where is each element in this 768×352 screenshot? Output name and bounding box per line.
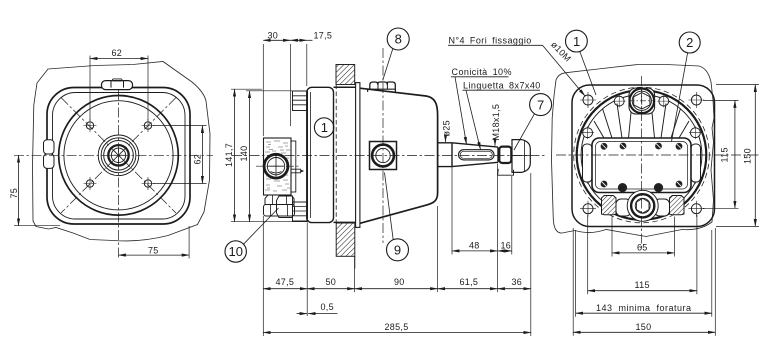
dim 16 bbox=[498, 250, 512, 252]
svg-text:8: 8 bbox=[395, 32, 402, 47]
block screw TL bbox=[601, 143, 608, 150]
fitting hex facets bbox=[273, 195, 287, 204]
flange face inner line bbox=[310, 92, 312, 218]
threaded end M18 bbox=[499, 147, 511, 163]
bulkhead panel bottom section (hatched) bbox=[336, 223, 355, 256]
dim 140 dimension line bbox=[249, 91, 251, 222]
dim 90 bbox=[355, 288, 438, 290]
dim 75 left: bottom extension bbox=[14, 225, 60, 227]
svg-text:62: 62 bbox=[193, 154, 203, 165]
bottom drain boss outer circle bbox=[627, 190, 658, 221]
callout 7 leader bbox=[514, 114, 535, 150]
svg-text:ø10M: ø10M bbox=[549, 39, 573, 63]
block inner edge bbox=[596, 142, 688, 190]
svg-text:30: 30 bbox=[268, 30, 279, 40]
dim 47.5 bbox=[263, 288, 307, 290]
right outlet fitting hatched bbox=[670, 196, 685, 215]
Conicita leader bbox=[455, 77, 467, 145]
washer tab below bbox=[498, 169, 514, 175]
bypass valve block body bbox=[264, 138, 292, 195]
key slot inner bbox=[460, 151, 492, 158]
left outlet fitting hatched bbox=[602, 196, 617, 215]
svg-text:115: 115 bbox=[720, 147, 730, 162]
shaft bore bold ring bbox=[108, 145, 128, 165]
panel hidden edge (dashed) bbox=[335, 85, 337, 224]
svg-text:75: 75 bbox=[148, 246, 159, 256]
boss centerline cross bbox=[629, 88, 656, 115]
lower nut facets bbox=[271, 205, 288, 216]
pump neck top edge bbox=[334, 86, 356, 88]
cover bolt hole 202.5deg bbox=[581, 171, 594, 184]
N4 fori underline bbox=[448, 44, 543, 46]
casting web rib lines bbox=[594, 104, 689, 139]
callout 9 circle bbox=[387, 239, 409, 261]
hub circle 2 bbox=[101, 138, 136, 173]
filler plug hex lobes bbox=[370, 82, 396, 89]
dim 30/17.5 extension line b bbox=[290, 44, 292, 126]
callout 9 leader bbox=[385, 173, 394, 240]
clamp bracket at flange top-left bbox=[293, 91, 307, 111]
callout 1 rear circle bbox=[566, 30, 588, 52]
plate corner hole BL bbox=[580, 201, 596, 217]
dim 143 bbox=[576, 312, 712, 314]
bleed nipple toward flange bbox=[292, 169, 301, 173]
cover bolt hole 157.5deg bbox=[581, 126, 594, 139]
svg-text:50: 50 bbox=[326, 277, 337, 287]
knob slot detail bbox=[268, 156, 284, 177]
svg-text:75: 75 bbox=[9, 188, 19, 199]
svg-text:150: 150 bbox=[636, 322, 652, 332]
callout 10 circle bbox=[225, 241, 246, 262]
dim 62 top: extension lines bbox=[90, 56, 148, 121]
N4 fori leader bbox=[543, 45, 586, 96]
svg-text:Linguetta 8x7x40: Linguetta 8x7x40 bbox=[463, 80, 541, 90]
key slot outer bbox=[459, 150, 495, 160]
filler plug facet verticals bbox=[378, 83, 387, 89]
bottom dims: extension verticals bbox=[263, 164, 531, 337]
svg-text:10: 10 bbox=[229, 244, 243, 259]
top boss inner circle bbox=[632, 91, 651, 110]
dim 115 bottom extensions bbox=[588, 215, 697, 294]
horizontal centerline left view bbox=[14, 154, 213, 156]
pump neck bottom edge bbox=[334, 221, 356, 223]
hex fitting at flange bottom-left (item 10 target) bbox=[277, 196, 293, 218]
dim 48 bbox=[452, 250, 498, 252]
dim 150 right bbox=[754, 85, 756, 227]
main horizontal centerline bbox=[232, 155, 545, 157]
cover bolt hole 337.5deg bbox=[689, 171, 702, 184]
hub circle 1 bbox=[98, 135, 139, 176]
shaft nut (item 7) bbox=[512, 140, 530, 173]
left side clip lower bbox=[44, 154, 55, 168]
plate corner hole BR bbox=[688, 201, 704, 217]
dim 141.7 top extension bbox=[231, 88, 262, 90]
dim 150 bottom bbox=[573, 331, 715, 333]
svg-text:141,7: 141,7 bbox=[224, 143, 234, 167]
dim 30 dimension line bbox=[263, 39, 290, 41]
flange front face bold line bbox=[306, 91, 308, 219]
svg-text:48: 48 bbox=[469, 240, 480, 250]
dim 285.5 bbox=[263, 332, 531, 334]
dim 115 right bbox=[734, 100, 736, 208]
bolt hole bottom-left bbox=[84, 177, 97, 190]
dim 17.5 line tail bbox=[307, 39, 313, 41]
side port boss (item 9) square bbox=[370, 142, 397, 170]
callout 2 circle bbox=[679, 32, 700, 53]
panel rear face below bbox=[354, 256, 356, 268]
svg-text:140: 140 bbox=[239, 146, 249, 162]
svg-text:61,5: 61,5 bbox=[460, 277, 479, 287]
clamp bracket at flange bottom-left bbox=[293, 202, 307, 221]
pump rear inner circle bbox=[581, 95, 702, 216]
svg-text:150: 150 bbox=[743, 148, 753, 164]
filler plug (item 8) base flange bbox=[368, 89, 396, 92]
svg-text:90: 90 bbox=[394, 277, 405, 287]
front flange plate bbox=[307, 87, 334, 222]
dim 75 left: dimension line bbox=[18, 155, 20, 225]
panel cutout blob (rear view) bbox=[552, 65, 715, 237]
block screw T2 bbox=[620, 143, 627, 150]
filler cap facet lines bbox=[111, 81, 124, 88]
filler cap seen from front (top of plate) bbox=[102, 81, 133, 90]
shaft spline circle bbox=[111, 148, 125, 162]
bleed nipple tip bbox=[301, 170, 304, 173]
filler cap center bump bbox=[113, 79, 123, 81]
pump flange circle outer bbox=[59, 96, 179, 216]
callout 7 circle bbox=[530, 94, 552, 116]
bottom drain bold circle bbox=[631, 194, 654, 217]
Linguetta underline bbox=[463, 89, 541, 91]
svg-text:65: 65 bbox=[637, 242, 648, 252]
dim 30/17.5 extension line a bbox=[262, 44, 264, 136]
svg-text:1: 1 bbox=[321, 120, 328, 135]
top boss bold circle bbox=[630, 89, 655, 114]
dim 62 right: dimension line bbox=[201, 126, 203, 184]
callout 8 leader bbox=[383, 49, 393, 80]
dim 140 top extension bbox=[246, 90, 307, 92]
bottom drain inner circle bbox=[635, 198, 650, 213]
side port inner circle bbox=[376, 148, 390, 162]
minimum bore dashed circle bbox=[574, 87, 710, 223]
spline cross lines bbox=[111, 148, 125, 163]
dim 36 bbox=[498, 288, 531, 290]
valve block casting texture bbox=[265, 141, 290, 191]
dim 17.5 dimension line bbox=[291, 39, 307, 41]
svg-text:143 minima foratura: 143 minima foratura bbox=[596, 303, 692, 313]
dim 61.5 bbox=[438, 288, 498, 290]
block screw BL bbox=[601, 181, 608, 188]
callout 2 leader bbox=[672, 53, 688, 142]
dim 65 extensions bbox=[612, 217, 674, 257]
dia25 leader arrow bbox=[445, 137, 447, 142]
svg-text:9: 9 bbox=[394, 243, 401, 258]
cover bolt hole 22.5deg bbox=[689, 126, 702, 139]
svg-text:285,5: 285,5 bbox=[385, 322, 409, 332]
block screw TR bbox=[676, 143, 683, 150]
hub circle 3 bbox=[104, 141, 134, 171]
dim 150 bottom extensions bbox=[573, 228, 715, 336]
shaft root cylinder bbox=[438, 143, 452, 167]
panel cutout blob (left view) bbox=[33, 62, 211, 241]
dim 115 bottom bbox=[588, 290, 697, 292]
svg-text:1: 1 bbox=[573, 34, 580, 49]
dim 50 bbox=[307, 288, 354, 290]
cover bolt hole 112.5deg bbox=[613, 95, 626, 108]
bypass valve knob bold ring bbox=[264, 154, 288, 178]
left wing plate bbox=[583, 144, 593, 182]
bottom drain hex bbox=[636, 198, 649, 213]
plate corner hole TR bbox=[688, 92, 704, 108]
Conicita underline bbox=[451, 76, 509, 78]
callout 8 circle bbox=[387, 28, 409, 50]
svg-text:47,5: 47,5 bbox=[276, 277, 295, 287]
valve block spacer bbox=[291, 141, 296, 192]
dim 143 extensions bbox=[576, 230, 712, 317]
rear horizontal centerline bbox=[556, 154, 760, 156]
right wing plate bbox=[691, 144, 701, 182]
svg-text:Conicità 10%: Conicità 10% bbox=[452, 67, 512, 77]
diagonal centerline NW-SE bbox=[61, 98, 176, 214]
svg-text:B: B bbox=[620, 186, 624, 193]
pump body outline bbox=[360, 88, 438, 223]
block screw T3 bbox=[655, 143, 662, 150]
dim 0.5 right arrow bbox=[308, 313, 337, 315]
fitting lower nut bbox=[264, 205, 295, 217]
valve knob centerline bbox=[256, 165, 299, 167]
bolt hole top-left bbox=[84, 119, 97, 132]
side port bold circle bbox=[372, 145, 394, 167]
svg-text:ø25: ø25 bbox=[442, 120, 452, 136]
dim 0.5 left arrow bbox=[297, 313, 307, 315]
left outlet tab bbox=[616, 199, 631, 216]
bypass valve knob inner circle bbox=[267, 158, 284, 175]
top boss hex plug bbox=[634, 93, 650, 109]
callout 1 circle (side view) bbox=[314, 118, 333, 137]
rear vertical centerline bbox=[641, 76, 643, 248]
callout 1 rear leader bbox=[580, 52, 596, 96]
port B left bbox=[618, 183, 627, 193]
svg-text:M18x1,5: M18x1,5 bbox=[491, 104, 501, 141]
dim 62 right: extension lines bbox=[153, 126, 207, 184]
svg-text:0,5: 0,5 bbox=[321, 302, 334, 312]
bolt hole bottom-right bbox=[142, 177, 155, 190]
top boss housing bbox=[629, 88, 655, 114]
dim 141.7/140 bottom extension bbox=[231, 221, 308, 223]
central valve housing block bbox=[592, 138, 691, 193]
bolt hole top-right bbox=[142, 119, 155, 132]
vertical centerline left view bbox=[118, 90, 120, 258]
block screw BR bbox=[676, 181, 683, 188]
mounting plate inner edge line bbox=[53, 93, 186, 220]
pump flange circle inner bbox=[64, 101, 173, 210]
dim 75 bottom: extension line right bbox=[188, 226, 190, 259]
svg-text:2: 2 bbox=[686, 35, 693, 50]
svg-text:62: 62 bbox=[112, 48, 123, 58]
svg-text:36: 36 bbox=[512, 277, 523, 287]
right outlet tab bbox=[655, 199, 670, 216]
dim 115 right extensions bbox=[703, 100, 739, 208]
dim 75 bottom: dimension line bbox=[119, 254, 190, 256]
svg-text:115: 115 bbox=[635, 280, 650, 290]
M18 leader arrow bbox=[494, 141, 496, 146]
svg-text:17,5: 17,5 bbox=[314, 30, 333, 40]
cover bolt hole 67.5deg bbox=[657, 95, 670, 108]
left side clip upper bbox=[44, 140, 55, 154]
lower bracket plates bbox=[293, 207, 307, 216]
dim 150 right extensions bbox=[716, 85, 759, 227]
Linguetta leader bbox=[466, 90, 481, 149]
diagonal centerline NE-SW bbox=[61, 98, 176, 214]
pump rear outer circle bold bbox=[577, 90, 707, 220]
svg-text:B: B bbox=[656, 186, 660, 193]
callout 10 leader bbox=[244, 208, 279, 244]
mounting plate outer outline (left view) bbox=[47, 88, 190, 225]
bulkhead panel top section (hatched) bbox=[336, 65, 355, 85]
port B right bbox=[654, 183, 663, 193]
retaining ring lip bbox=[356, 83, 360, 228]
vertical centerline through plug and port bbox=[382, 48, 384, 243]
nut facet line bbox=[512, 140, 530, 172]
plate corner hole TL bbox=[580, 92, 596, 108]
flange face extension up bbox=[306, 44, 308, 86]
svg-text:16: 16 bbox=[501, 240, 512, 250]
clamp bracket plates bbox=[293, 96, 307, 105]
fitting hex nut under valve block bbox=[265, 195, 294, 205]
svg-text:N°4 Fori fissaggio: N°4 Fori fissaggio bbox=[449, 35, 532, 45]
rear mounting plate bbox=[572, 85, 715, 227]
dim 141.7 dimension line bbox=[234, 89, 236, 222]
svg-text:7: 7 bbox=[537, 97, 544, 112]
dim 62 top: dimension line bbox=[90, 58, 148, 60]
dim 65 bbox=[612, 252, 674, 254]
shaft taper bbox=[452, 143, 498, 167]
